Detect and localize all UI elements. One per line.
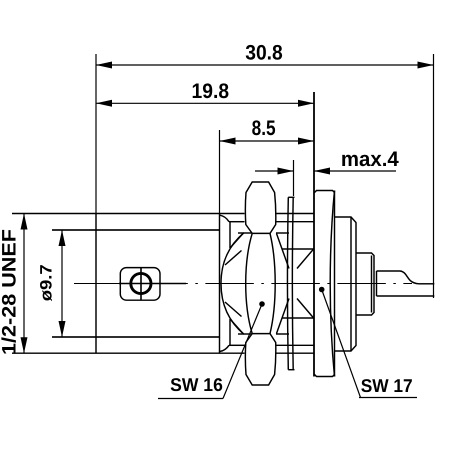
label SW 17 [319, 287, 417, 398]
svg-text:ø9.7: ø9.7 [37, 264, 55, 301]
solder cup [377, 271, 435, 296]
washer left (toothed) [221, 222, 244, 346]
svg-text:30.8: 30.8 [245, 42, 283, 65]
svg-text:max.4: max.4 [341, 148, 399, 171]
teeth right washer [276, 214, 314, 354]
label SW 16 [158, 301, 265, 398]
svg-text:SW 16: SW 16 [170, 374, 223, 395]
dimension 30.8 [96, 42, 434, 299]
dimension max.4 [255, 148, 399, 196]
body outline [12, 214, 245, 354]
svg-text:8.5: 8.5 [252, 117, 276, 140]
bushing [335, 217, 357, 351]
dimension 8.5 [220, 117, 315, 214]
dimension dia 9.7 [37, 230, 219, 337]
dimension 19.8 [96, 80, 314, 107]
svg-text:SW 17: SW 17 [361, 375, 413, 396]
insulator cylinder [356, 253, 374, 315]
hex nut SW17 [314, 92, 335, 377]
dimension 1/2-28 UNEF [0, 214, 28, 356]
centerline [74, 283, 412, 285]
bayonet pin [120, 267, 160, 301]
svg-text:1/2-28 UNEF: 1/2-28 UNEF [0, 229, 21, 355]
washer middle [287, 197, 294, 369]
svg-text:19.8: 19.8 [192, 80, 230, 103]
hex nut SW16 [238, 182, 289, 385]
